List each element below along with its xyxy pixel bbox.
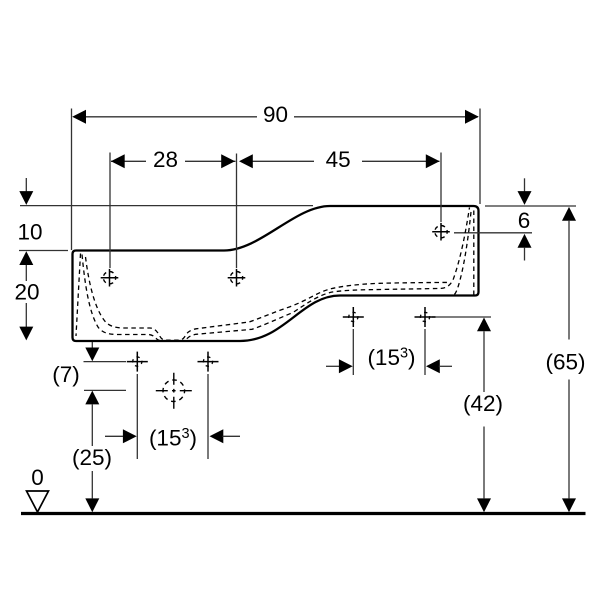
inner bowl right wall dashed line	[473, 211, 475, 295]
tap hole middle	[228, 269, 246, 287]
dimension 6 lower arrow (up)	[518, 234, 532, 248]
svg-text:28: 28	[153, 147, 178, 172]
dimension 42 lower arrow	[477, 498, 491, 512]
floor line	[21, 512, 586, 515]
dimension 42 line	[477, 318, 491, 332]
dimension 6 upper arrow (down)	[524, 178, 526, 191]
extension line x=236.5 (28/45)	[236, 154, 238, 269]
svg-text:10: 10	[17, 220, 42, 245]
svg-text:(153): (153)	[149, 426, 197, 451]
tap hole right	[432, 223, 450, 241]
svg-text:20: 20	[14, 280, 39, 305]
svg-text:6: 6	[518, 208, 531, 233]
dimension 45 arrow left	[239, 154, 253, 168]
svg-text:(65): (65)	[545, 350, 585, 375]
extension line x=425 below	[424, 329, 426, 375]
reference line top right (6 / 65 datum)	[485, 205, 576, 207]
dimension 28 arrow right	[221, 154, 235, 168]
datum triangle	[27, 491, 49, 512]
dimension 15-3 right: right arrow (left-pointing)	[426, 359, 440, 373]
extension line x=208 below right fixing	[207, 374, 209, 459]
tap hole right level line (6 lower)	[454, 232, 532, 234]
basin outline	[73, 206, 479, 341]
dimension 65 line	[562, 207, 576, 221]
tap hole left	[101, 269, 119, 287]
svg-text:45: 45	[326, 147, 351, 172]
fixing hole upper-right	[415, 307, 436, 327]
dimension 7 upper arrow (down)	[91, 342, 93, 348]
dimension 45 line	[241, 160, 440, 162]
dimension 90 arrow left	[72, 110, 86, 124]
extension line x=137.3 below left fixing	[136, 374, 138, 459]
fixing hole upper-left	[343, 307, 364, 327]
dimension 15-3 left: left arrow (right-pointing)	[105, 435, 124, 437]
inner bowl dashed contour lower/outer	[82, 208, 470, 341]
svg-text:(25): (25)	[72, 445, 112, 470]
inner bowl right slant dashed line	[454, 212, 472, 295]
dimension 45 arrow right	[426, 154, 440, 168]
dimension 90 line	[74, 116, 479, 118]
svg-text:90: 90	[263, 102, 288, 127]
inner bowl dashed contour upper/inner	[86, 257, 451, 340]
dimension 28 line	[111, 160, 236, 162]
extension line left x=71.5	[71, 109, 73, 251]
drain level line (7 lower / 25 upper)	[84, 389, 126, 391]
fixing hole lower-left	[127, 352, 148, 372]
dimension 20 lower arrow (down)	[25, 303, 27, 328]
extension line x=110 (28 left)	[109, 153, 111, 269]
extension line x=353.3 below	[352, 329, 354, 375]
extension line x=441 (45 right)	[440, 153, 442, 223]
dimension 20 upper arrow (up)	[19, 251, 33, 265]
svg-text:(153): (153)	[367, 345, 415, 370]
drain circle	[156, 373, 192, 409]
svg-text:(42): (42)	[463, 391, 503, 416]
reference line left of basin top edge	[19, 250, 68, 252]
inner bowl left wall dashed line	[76, 254, 81, 337]
dimension 15-3 left: right arrow (left-pointing)	[210, 429, 224, 443]
dimension 15-3 right: left arrow (right-pointing)	[326, 365, 340, 367]
dimension 25 upper arrow (up)	[85, 391, 99, 405]
reference line top (10 upper datum)	[20, 205, 313, 207]
dimension 10 upper arrow	[25, 178, 27, 192]
fixing hole lower-right	[198, 352, 219, 372]
right fixing level line (42 datum)	[432, 316, 491, 318]
dimension 25 lower arrow (down)	[91, 471, 93, 498]
svg-text:0: 0	[31, 465, 44, 490]
extension line right x=480	[479, 109, 481, 205]
dimension 28 arrow left	[111, 154, 125, 168]
dimension 90 arrow right	[465, 110, 479, 124]
svg-text:(7): (7)	[52, 362, 80, 387]
left fixing level line (7 upper)	[84, 361, 127, 363]
dimension 65 lower arrow	[562, 498, 576, 512]
